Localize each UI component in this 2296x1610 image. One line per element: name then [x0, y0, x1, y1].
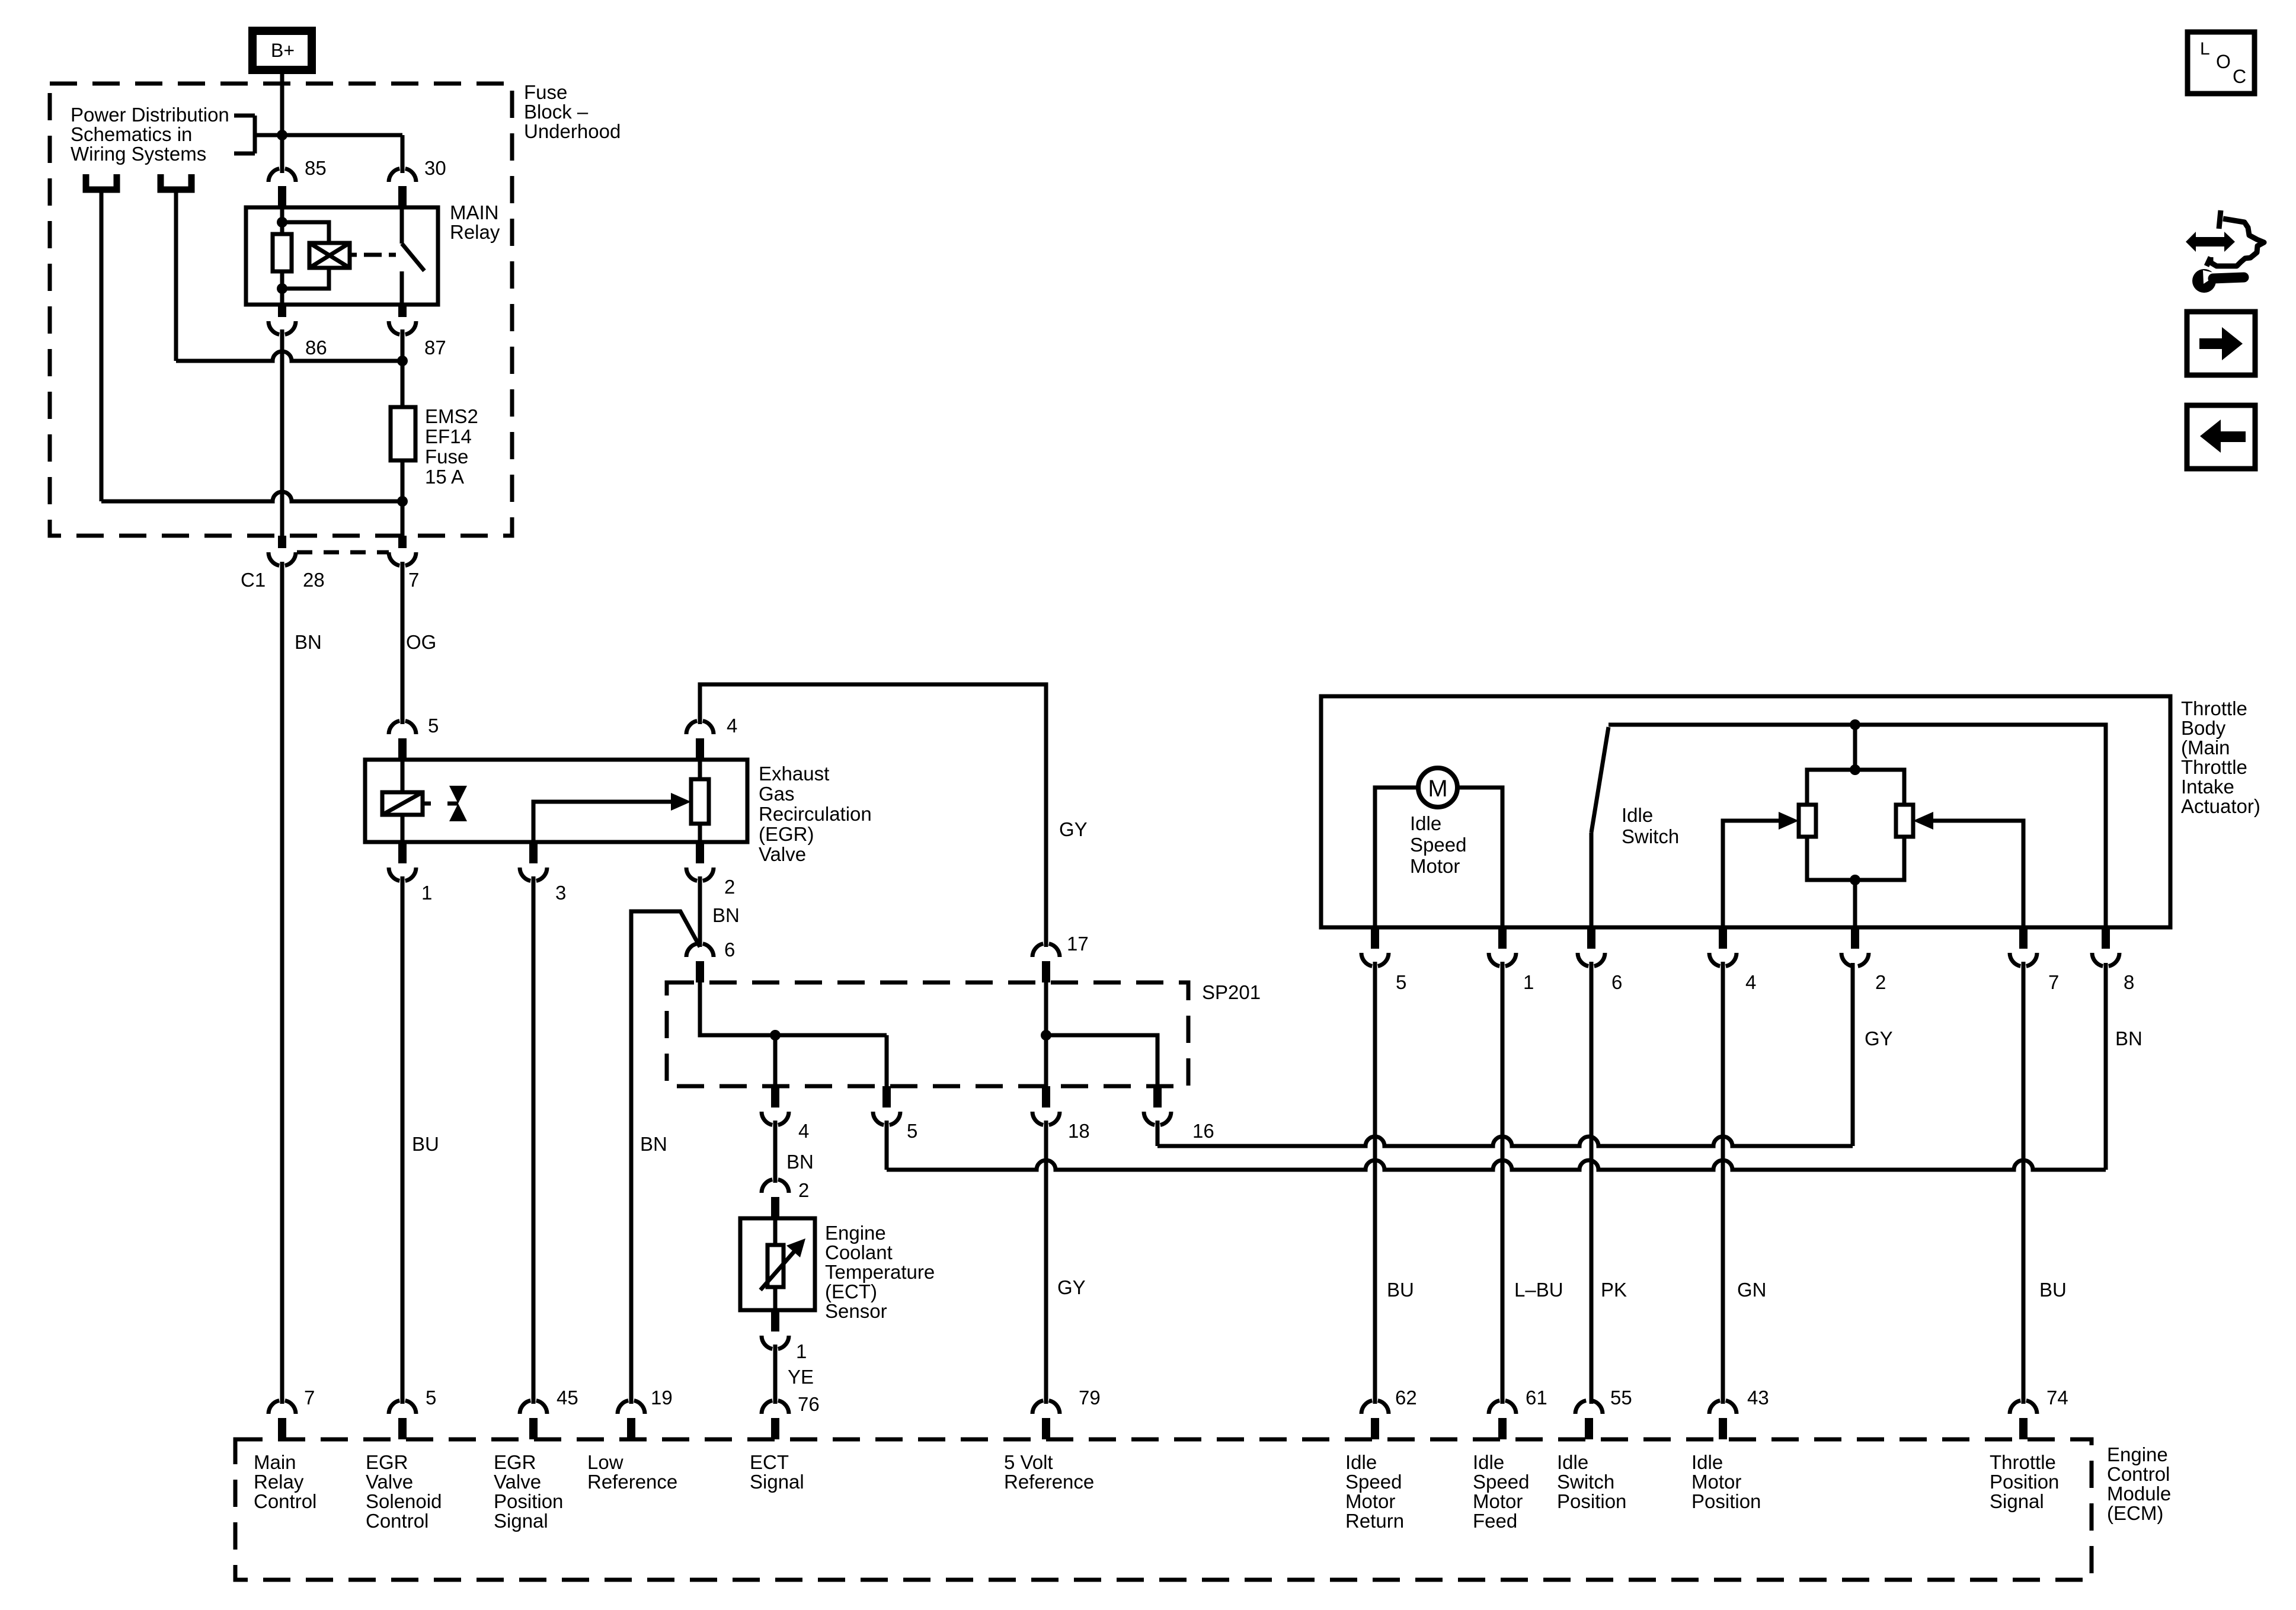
ECT pin 2 connector: [762, 1180, 789, 1219]
svg-text:EMS2: EMS2: [425, 405, 478, 427]
resistor (relay): [273, 234, 292, 271]
wire loop to relay coil: [282, 222, 329, 289]
svg-text:Gas: Gas: [759, 783, 795, 805]
svg-text:Motor: Motor: [1473, 1490, 1523, 1512]
svg-text:Recirculation: Recirculation: [759, 803, 872, 825]
svg-text:Idle: Idle: [1622, 804, 1653, 826]
svg-text:Throttle: Throttle: [2181, 697, 2247, 719]
tps wiper arrow left: [1723, 812, 1799, 927]
ECM pin 7 connector: [268, 1401, 296, 1440]
svg-text:Motor: Motor: [1691, 1471, 1741, 1493]
svg-text:Position: Position: [1990, 1471, 2059, 1493]
svg-text:5: 5: [1396, 971, 1406, 993]
ECM pin 19 connector: [618, 1401, 645, 1440]
EGR position wiper arrow: [533, 802, 672, 842]
svg-text:8: 8: [2124, 971, 2134, 993]
svg-text:Idle: Idle: [1345, 1451, 1377, 1473]
relay switch contact: [402, 207, 424, 305]
tps element right: [1896, 805, 1913, 837]
EGR pin 4 connector: [686, 721, 714, 760]
svg-text:Low: Low: [587, 1451, 623, 1473]
svg-text:Idle: Idle: [1473, 1451, 1504, 1473]
svg-text:BU: BU: [1387, 1279, 1414, 1301]
label: Engine Coolant Temperature (ECT) Sensor: [825, 1222, 935, 1322]
EGR valve poppet symbol: [449, 786, 467, 821]
svg-text:BN: BN: [640, 1133, 667, 1155]
tps element left: [1799, 805, 1816, 837]
forward reference arrow icon: [2187, 312, 2255, 375]
svg-text:BN: BN: [2115, 1028, 2142, 1049]
ECM label: 5 Volt Reference: [1004, 1451, 1094, 1493]
label: Fuse Block - Underhood: [524, 81, 621, 142]
svg-text:Switch: Switch: [1557, 1471, 1614, 1493]
ECM pin 62 connector: [1361, 1401, 1389, 1440]
ECM label: EGR Valve Position Signal: [494, 1451, 563, 1532]
svg-text:Idle: Idle: [1691, 1451, 1723, 1473]
svg-text:Throttle: Throttle: [2181, 756, 2247, 778]
ECM pin 45 connector: [520, 1401, 547, 1440]
label: Throttle Body (Main Throttle Intake Actuator): [2181, 697, 2260, 817]
relay coil branch wire: [280, 207, 284, 234]
svg-text:SP201: SP201: [1202, 981, 1261, 1003]
ECM label: Idle Switch Position: [1557, 1451, 1626, 1512]
wire SP201-18 GY to ECM 79: [1044, 1121, 1048, 1404]
svg-text:BN: BN: [295, 631, 322, 653]
svg-text:Block –: Block –: [524, 101, 589, 123]
ECM pin 61 connector: [1489, 1401, 1516, 1440]
svg-text:Position: Position: [494, 1490, 563, 1512]
pin 30 connector: [389, 169, 416, 208]
C1 connector dashed strip: [297, 550, 389, 555]
motor wires: [1375, 788, 1502, 927]
svg-text:7: 7: [408, 569, 419, 591]
svg-text:Motor: Motor: [1345, 1490, 1395, 1512]
wire SP201-16 5v bus to throttle pin 2: [1157, 963, 1853, 1146]
node coil bottom: [277, 283, 287, 294]
svg-text:Control: Control: [2107, 1463, 2170, 1485]
svg-text:BU: BU: [2039, 1279, 2067, 1301]
mechanical link dashes: [350, 253, 396, 257]
svg-text:Throttle: Throttle: [1990, 1451, 2056, 1473]
svg-text:Module: Module: [2107, 1483, 2171, 1505]
label: MAIN Relay: [450, 201, 500, 243]
svg-text:Solenoid: Solenoid: [366, 1490, 442, 1512]
svg-text:L–BU: L–BU: [1514, 1279, 1563, 1301]
SP201 pin 4 connector: [762, 1086, 789, 1125]
svg-text:28: 28: [303, 569, 325, 591]
wire bridge bottom to pin 2: [1853, 880, 1857, 927]
svg-text:87: 87: [424, 337, 446, 359]
node bridge top: [1850, 764, 1860, 775]
svg-text:Schematics in: Schematics in: [71, 123, 192, 145]
svg-text:74: 74: [2046, 1387, 2068, 1409]
svg-text:EGR: EGR: [494, 1451, 536, 1473]
svg-text:Return: Return: [1345, 1510, 1404, 1532]
svg-text:BN: BN: [712, 904, 740, 926]
ECM pin 79 connector: [1032, 1401, 1060, 1440]
EGR pin 3 connector: [520, 842, 547, 881]
SP201 dashed box: [667, 982, 1188, 1086]
ECT sensor box: [740, 1218, 815, 1310]
svg-text:Engine: Engine: [825, 1222, 886, 1244]
ECM label: Idle Speed Motor Feed: [1473, 1451, 1529, 1532]
pin 87 connector: [389, 305, 416, 335]
throttle body pin 8 connector: [2092, 927, 2119, 966]
throttle body pin 6 connector: [1578, 927, 1605, 966]
fuse block - underhood dashed box: [50, 84, 512, 536]
wire throttle 5 BU to ECM 62: [1373, 962, 1377, 1404]
svg-text:EGR: EGR: [366, 1451, 408, 1473]
svg-text:86: 86: [305, 337, 327, 359]
svg-text:15 A: 15 A: [425, 466, 464, 488]
arrowhead: [671, 793, 691, 811]
svg-text:6: 6: [724, 939, 735, 961]
connector C1 pin 7: [389, 536, 416, 566]
svg-text:M: M: [1428, 776, 1447, 802]
svg-text:7: 7: [2048, 971, 2059, 993]
wire EGR pin 2 BN to splice: [698, 876, 702, 947]
node at B+ / 85 / 30 junction: [277, 130, 287, 140]
wire bracket to B+ node: [255, 133, 402, 137]
throttle body pin 5 connector: [1361, 927, 1389, 966]
ECM label: EGR Valve Solenoid Control: [366, 1451, 442, 1532]
svg-text:GY: GY: [1865, 1028, 1893, 1049]
svg-text:EF14: EF14: [425, 425, 472, 447]
svg-text:Idle: Idle: [1557, 1451, 1588, 1473]
wire idle switch to throttle pin 8: [1609, 725, 2106, 927]
wire YE ECT to ECM 76: [773, 1345, 778, 1404]
SP201 pin 5 connector: [873, 1086, 900, 1125]
svg-text:(ECT): (ECT): [825, 1281, 877, 1302]
svg-text:Underhood: Underhood: [524, 120, 621, 142]
ECM label: Throttle Position Signal: [1990, 1451, 2059, 1512]
wire down to relay pin 30: [401, 135, 405, 173]
svg-text:C: C: [2233, 66, 2246, 87]
svg-text:43: 43: [1747, 1387, 1769, 1409]
svg-text:85: 85: [305, 157, 327, 179]
pin 85 connector: [268, 169, 296, 208]
wire SP201-5 low reference bus to throttle pin 8: [887, 963, 2106, 1170]
svg-text:Signal: Signal: [494, 1510, 548, 1532]
svg-text:5: 5: [907, 1120, 917, 1142]
node wire U2 joins pin 87 wire: [397, 356, 408, 366]
idle switch: [1591, 727, 1609, 927]
wire pin 86 down through fuse block: [280, 329, 284, 536]
node SP201 left: [770, 1030, 781, 1041]
svg-text:Actuator): Actuator): [2181, 795, 2260, 817]
ECM label: Idle Speed Motor Return: [1345, 1451, 1404, 1532]
ECM pin 5 connector: [389, 1401, 416, 1440]
wire BN pin 28 to ECM pin 7: [280, 562, 284, 1404]
LOC reference icon: [2188, 32, 2255, 94]
SP201 internal bus left: [700, 982, 887, 1086]
node bridge bottom: [1850, 875, 1860, 885]
svg-text:Wiring Systems: Wiring Systems: [71, 143, 206, 165]
node tps top: [1850, 719, 1860, 730]
svg-text:Relay: Relay: [450, 221, 500, 243]
svg-text:Speed: Speed: [1410, 834, 1466, 856]
EGR pin 1 connector: [389, 842, 416, 881]
svg-text:61: 61: [1526, 1387, 1547, 1409]
node coil top: [277, 217, 287, 228]
wire SP201-4 BN to ECT pin 2: [773, 1121, 778, 1183]
label: Power Distribution Schematics in Wiring Systems: [71, 104, 229, 165]
EGR solenoid (box with diagonal): [382, 792, 423, 815]
svg-text:Feed: Feed: [1473, 1510, 1517, 1532]
svg-text:(EGR): (EGR): [759, 823, 814, 845]
svg-text:45: 45: [557, 1387, 578, 1409]
EGR mechanical link dashes: [423, 802, 458, 806]
svg-text:2: 2: [798, 1179, 809, 1201]
wire EGR pin 1 to ECM 5: [401, 876, 405, 1404]
svg-text:4: 4: [1745, 971, 1756, 993]
svg-text:19: 19: [651, 1387, 673, 1409]
ECM pin 74 connector: [2010, 1401, 2037, 1440]
svg-text:Control: Control: [366, 1510, 428, 1532]
wire U2 to node at relay pin 87: [174, 190, 178, 361]
wire node to tps bridge: [1853, 725, 1857, 770]
SP201 pin 18 connector: [1032, 1086, 1060, 1125]
svg-text:GY: GY: [1057, 1276, 1086, 1298]
label: EMS2 EF14 Fuse 15 A: [425, 405, 478, 488]
EGR valve box: [365, 760, 747, 842]
pin 86 connector: [268, 305, 296, 335]
wire throttle 7 BU to ECM 74: [2022, 962, 2026, 1404]
idle speed motor circle M: [1418, 768, 1457, 807]
ECT thermistor: [768, 1218, 784, 1310]
svg-text:Speed: Speed: [1345, 1471, 1402, 1493]
svg-text:PK: PK: [1601, 1279, 1627, 1301]
svg-text:62: 62: [1395, 1387, 1417, 1409]
svg-text:(ECM): (ECM): [2107, 1502, 2163, 1524]
svg-text:4: 4: [798, 1120, 809, 1142]
svg-text:Valve: Valve: [366, 1471, 413, 1493]
battery feed B+: [252, 31, 312, 70]
svg-text:Temperature: Temperature: [825, 1261, 935, 1283]
svg-text:Valve: Valve: [759, 843, 806, 865]
svg-text:Intake: Intake: [2181, 776, 2234, 798]
EGR solenoid wire top: [401, 760, 405, 792]
svg-text:1: 1: [1523, 971, 1534, 993]
throttle position sensor bridge: [1807, 770, 1904, 880]
backward reference arrow icon: [2187, 405, 2255, 469]
node wire U1 joins fuse output: [397, 496, 408, 507]
label: Engine Control Module (ECM): [2107, 1443, 2171, 1524]
svg-text:C1: C1: [241, 569, 266, 591]
off-page connector U2: [161, 174, 191, 190]
label: Idle Speed Motor: [1410, 812, 1466, 877]
label: Exhaust Gas Recirculation (EGR) Valve: [759, 763, 872, 865]
throttle body box: [1321, 696, 2170, 927]
svg-text:2: 2: [1875, 971, 1886, 993]
node SP201 right: [1041, 1030, 1051, 1041]
svg-text:BN: BN: [786, 1151, 814, 1173]
svg-text:Body: Body: [2181, 717, 2226, 739]
svg-text:30: 30: [424, 157, 446, 179]
svg-text:7: 7: [304, 1387, 315, 1409]
svg-text:B+: B+: [271, 40, 295, 61]
wire pin 87 down through fuse: [401, 329, 405, 536]
wire EGR pin 4 riser: [700, 684, 1046, 947]
svg-text:Control: Control: [254, 1490, 316, 1512]
svg-text:55: 55: [1610, 1387, 1632, 1409]
svg-text:Signal: Signal: [750, 1471, 804, 1493]
svg-text:Fuse: Fuse: [524, 81, 567, 103]
throttle body pin 2 connector: [1841, 927, 1869, 966]
svg-text:6: 6: [1611, 971, 1622, 993]
svg-text:5 Volt: 5 Volt: [1004, 1451, 1053, 1473]
connector C1 pin 28: [268, 536, 296, 566]
tps wiper arrow right: [1913, 812, 2023, 927]
SP201 pin 6 connector: [686, 944, 714, 983]
svg-text:O: O: [2216, 51, 2231, 72]
svg-text:YE: YE: [788, 1366, 814, 1388]
wire throttle 4 GN to ECM 43: [1721, 962, 1725, 1404]
svg-text:(Main: (Main: [2181, 737, 2230, 758]
svg-text:BU: BU: [412, 1133, 439, 1155]
svg-text:79: 79: [1079, 1387, 1101, 1409]
throttle body pin 1 connector: [1489, 927, 1516, 966]
wire low reference to splice: [631, 911, 700, 1404]
EGR pin 2 connector: [686, 842, 714, 881]
EGR pin 5 connector: [389, 721, 416, 760]
svg-text:ECT: ECT: [750, 1451, 789, 1473]
svg-text:5: 5: [426, 1387, 436, 1409]
svg-text:18: 18: [1068, 1120, 1090, 1142]
svg-text:2: 2: [724, 876, 735, 898]
ECM pin 55 connector: [1575, 1401, 1603, 1440]
wire B+ down to relay pin 85: [280, 70, 284, 137]
throttle body pin 7 connector: [2010, 927, 2037, 966]
svg-text:Exhaust: Exhaust: [759, 763, 829, 785]
wire throttle 1 L-BU to ECM 61: [1501, 962, 1505, 1404]
ECT pin 1 connector: [762, 1310, 789, 1349]
svg-text:Motor: Motor: [1410, 855, 1460, 877]
wire resistor bottom: [280, 271, 284, 305]
ECM label: ECT Signal: [750, 1451, 804, 1493]
svg-text:Reference: Reference: [587, 1471, 677, 1493]
ECT variable arrow: [760, 1238, 805, 1290]
ECM pin 43 connector: [1709, 1401, 1737, 1440]
ECM dashed box: [235, 1439, 2092, 1580]
svg-text:4: 4: [727, 715, 737, 737]
wire EGR pin 3 to ECM 45: [532, 876, 536, 1404]
wire U1 to node below fuse: [100, 190, 104, 501]
EGR solenoid wire bottom: [401, 815, 405, 842]
svg-text:76: 76: [798, 1393, 820, 1415]
bracket from power distribution text: [234, 116, 255, 153]
EGR position sensor element: [691, 760, 709, 842]
svg-text:MAIN: MAIN: [450, 201, 499, 223]
relay coil (box with X): [309, 243, 350, 268]
svg-text:Signal: Signal: [1990, 1490, 2044, 1512]
svg-text:17: 17: [1067, 933, 1089, 955]
svg-text:1: 1: [421, 882, 432, 904]
svg-text:Speed: Speed: [1473, 1471, 1529, 1493]
ECM pin 76 connector: [762, 1401, 789, 1440]
fuse EMS2 EF14 15A: [391, 407, 415, 460]
svg-text:GY: GY: [1059, 818, 1088, 840]
label: Idle Switch: [1622, 804, 1679, 847]
throttle body pin 4 connector: [1709, 927, 1737, 966]
wire throttle 6 PK to ECM 55: [1590, 962, 1594, 1404]
svg-text:Engine: Engine: [2107, 1443, 2168, 1465]
svg-text:1: 1: [796, 1340, 807, 1362]
svg-text:5: 5: [428, 715, 439, 737]
ECM label: Idle Motor Position: [1691, 1451, 1761, 1512]
ECM label: Low Reference: [587, 1451, 677, 1493]
SP201 pin 17 connector: [1032, 944, 1060, 983]
svg-text:Relay: Relay: [254, 1471, 304, 1493]
SP201 internal bus right: [1046, 982, 1157, 1086]
off-page connector U1: [86, 174, 117, 190]
svg-text:Power Distribution: Power Distribution: [71, 104, 229, 126]
svg-text:Position: Position: [1691, 1490, 1761, 1512]
svg-text:GN: GN: [1737, 1279, 1767, 1301]
diagnostic tool icon: [2186, 210, 2264, 293]
svg-text:Position: Position: [1557, 1490, 1626, 1512]
svg-text:Switch: Switch: [1622, 825, 1679, 847]
svg-text:Valve: Valve: [494, 1471, 541, 1493]
svg-text:Reference: Reference: [1004, 1471, 1094, 1493]
svg-text:Coolant: Coolant: [825, 1241, 893, 1263]
svg-text:OG: OG: [406, 631, 436, 653]
svg-text:Main: Main: [254, 1451, 296, 1473]
SP201 pin 16 connector: [1144, 1086, 1171, 1125]
wire OG pin 7 to EGR pin 5: [401, 562, 405, 724]
svg-text:Fuse: Fuse: [425, 446, 468, 468]
svg-text:16: 16: [1192, 1120, 1214, 1142]
MAIN relay box: [246, 207, 438, 305]
svg-text:L: L: [2200, 39, 2210, 59]
svg-text:3: 3: [555, 882, 566, 904]
ECM label: Main Relay Control: [254, 1451, 316, 1512]
svg-text:Sensor: Sensor: [825, 1300, 887, 1322]
svg-text:Idle: Idle: [1410, 812, 1441, 834]
